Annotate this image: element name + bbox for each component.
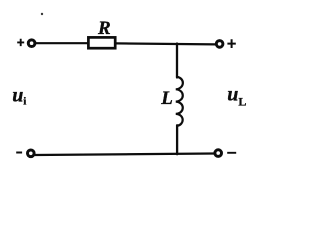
polarity sign: - at output bottom: [227, 152, 236, 154]
terminal: output + (top-right open circle): [216, 41, 223, 48]
svg-text:R: R: [97, 18, 111, 39]
speck: [41, 13, 43, 15]
svg-text:L: L: [238, 94, 246, 108]
polarity sign: + at input top: [17, 39, 24, 46]
inductor L coil (4 loops): [176, 77, 183, 126]
wire: top-left lead (input + terminal to resistor): [36, 42, 87, 44]
svg-text:L: L: [160, 88, 173, 109]
wire: inductor bottom lead to bottom-node junction: [176, 125, 178, 154]
polarity sign: - at input bottom: [16, 152, 22, 154]
polarity sign: + at output top: [227, 39, 235, 48]
resistor R (series box): [88, 37, 115, 48]
terminal: output - (bottom-right open circle): [215, 150, 222, 157]
svg-text:u: u: [12, 84, 23, 106]
svg-text:i: i: [23, 96, 26, 108]
wire: inductor top lead from top-node junction: [176, 44, 178, 78]
svg-text:u: u: [227, 84, 238, 106]
wire: top-right segment (resistor to output + terminal): [116, 43, 215, 44]
wire: bottom (input - terminal to output - terminal): [35, 154, 214, 156]
terminal: input + (top-left open circle): [28, 40, 35, 47]
terminal: input - (bottom-left open circle): [28, 150, 35, 157]
